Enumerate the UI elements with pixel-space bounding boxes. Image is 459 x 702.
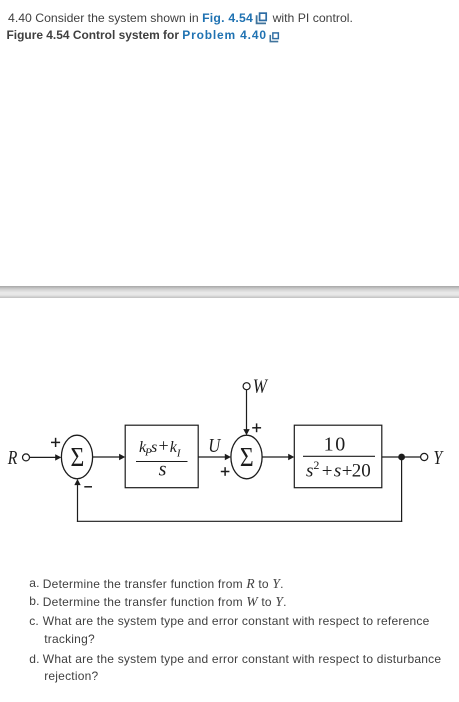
svg-text:Σ: Σ: [240, 442, 254, 472]
wire W to summing junction S2: [243, 390, 249, 435]
summing junction S1: [61, 435, 92, 479]
svg-text:s: s: [151, 439, 157, 456]
svg-text:U: U: [208, 435, 221, 458]
svg-text:I: I: [176, 448, 182, 460]
minus sign at S1 feedback input: [84, 486, 92, 488]
plus sign at S2 left input: [221, 467, 230, 476]
wire PI block to summing junction S2: [198, 454, 231, 460]
svg-text:2: 2: [313, 458, 319, 472]
link icon 2: [269, 30, 280, 48]
svg-text:+: +: [159, 436, 169, 456]
svg-text:W: W: [253, 375, 269, 398]
wire S1 to PI block: [93, 454, 126, 460]
node Y: [421, 447, 445, 469]
node R: [7, 448, 30, 469]
feedback wire from junction down: [401, 457, 403, 522]
svg-text:Y: Y: [433, 447, 444, 469]
block plant 10/(s^2+s+20): [294, 425, 382, 488]
feedback wire bottom run: [77, 520, 402, 522]
svg-text:R: R: [7, 448, 17, 469]
svg-text:Σ: Σ: [71, 442, 85, 472]
wire plant to output node Y: [382, 456, 421, 458]
junction dot: [398, 454, 405, 461]
separator band: [0, 286, 459, 298]
block PI controller (kps+kI)/s: [125, 425, 198, 488]
svg-text:+: +: [342, 461, 353, 482]
link icon 1: [255, 12, 268, 30]
svg-text:10: 10: [324, 434, 347, 456]
plus sign at S2 disturbance input: [252, 423, 261, 432]
wire R to summing junction S1: [30, 454, 62, 460]
svg-text:s: s: [306, 461, 313, 482]
svg-text:s: s: [334, 461, 341, 482]
svg-text:s: s: [159, 459, 167, 481]
plus sign at S1 reference input: [51, 438, 60, 447]
summing junction S2: [231, 435, 262, 479]
svg-text:+: +: [322, 461, 333, 482]
svg-text:20: 20: [352, 461, 371, 482]
feedback wire up to S1: [74, 479, 80, 522]
wire S2 to plant block: [262, 454, 294, 460]
node W: [243, 375, 269, 398]
